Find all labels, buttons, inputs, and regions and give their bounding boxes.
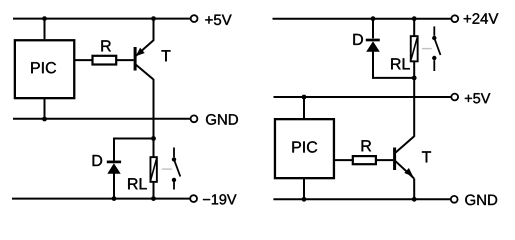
node junction PIC-to-+5V (right) (302, 95, 307, 100)
terminal -19V (left) (190, 195, 197, 202)
wire resistor to base (left) (117, 59, 134, 61)
wire +5V rail (left circuit) (13, 18, 190, 20)
wire PIC to resistor R (left) (75, 59, 92, 61)
relay coil RL (right) (391, 36, 417, 69)
relay contact switch (right) (432, 26, 440, 71)
node junction PIC-to-+5V (42, 16, 47, 21)
wire GND rail (right circuit) (273, 198, 451, 200)
wire +24V to diode (right) (372, 19, 374, 39)
terminal +5V (left) (191, 15, 198, 22)
wire junction to relay coil (left) (153, 139, 155, 158)
node junction D/RL/collector (right) (412, 76, 417, 81)
wire relay coil to -19V rail (153, 182, 155, 199)
diode D (right) (353, 34, 379, 52)
label -19V (left) (203, 194, 236, 204)
terminal GND (right) (451, 196, 458, 203)
wire GND rail (left circuit) (13, 118, 191, 120)
resistor R (right) (353, 140, 376, 164)
transistor T (left, PNP) (135, 40, 170, 79)
resistor R (left) (93, 40, 117, 64)
terminal GND (left) (191, 115, 198, 122)
terminal +5V (right) (451, 94, 458, 101)
mechanical link coil-contact (left, grey) (162, 168, 172, 170)
node junction RL-to-+24V (412, 16, 417, 21)
wire junction to collector across +5V rail (right) (413, 78, 415, 137)
node junction diode-to-+24V (371, 16, 376, 21)
transistor T (right, NPN) (395, 136, 431, 178)
wire -19V rail (left circuit) (12, 198, 190, 200)
wire +24V rail (right circuit) (273, 18, 452, 20)
wire PIC bottom to GND rail (44, 99, 46, 119)
node junction PIC-to-GND (42, 117, 47, 122)
wire PIC to resistor R (right) (334, 159, 352, 161)
wire emitter to GND rail (right) (413, 178, 415, 199)
diode D (left) (93, 155, 121, 174)
mechanical link coil-contact (right, grey) (422, 48, 432, 50)
node junction emitter-to-GND (right) (412, 197, 417, 202)
relay coil RL (left) (128, 157, 157, 189)
node junction PIC-to-GND (right) (302, 197, 307, 202)
node junction collector/D/RL (left) (151, 136, 156, 141)
node junction emitter-to-+5V (151, 16, 156, 21)
wire diode to -19V rail (113, 174, 115, 199)
label +5V (right) (465, 93, 490, 103)
wire collector down across GND (left) (153, 79, 155, 139)
wire +5V rail (right circuit) (274, 96, 452, 98)
wire PIC top to +5V rail (44, 19, 46, 39)
wire +24V to relay coil (right) (413, 19, 415, 37)
wire junction to diode (left) (114, 139, 154, 161)
wire PIC bottom to GND rail (right) (303, 179, 305, 200)
PIC U1 (left) (15, 40, 74, 98)
wire +5V rail to PIC top (right) (303, 97, 305, 119)
PIC U2 (right) (275, 119, 334, 178)
label GND (right) (465, 195, 497, 206)
wire resistor to base (right) (376, 159, 393, 161)
terminal +24V (right) (451, 15, 458, 22)
label +5V (left) (205, 15, 231, 25)
wire relay coil to junction (right) (413, 62, 415, 78)
relay contact switch (left) (172, 148, 181, 190)
node junction RL-to--19V (151, 196, 156, 201)
wire emitter to +5V rail (left) (153, 19, 155, 41)
label GND (left) (206, 114, 238, 125)
wire diode to junction (right) (373, 52, 414, 78)
node junction diode-to--19V (112, 196, 117, 201)
label +24V (right) (464, 13, 499, 23)
